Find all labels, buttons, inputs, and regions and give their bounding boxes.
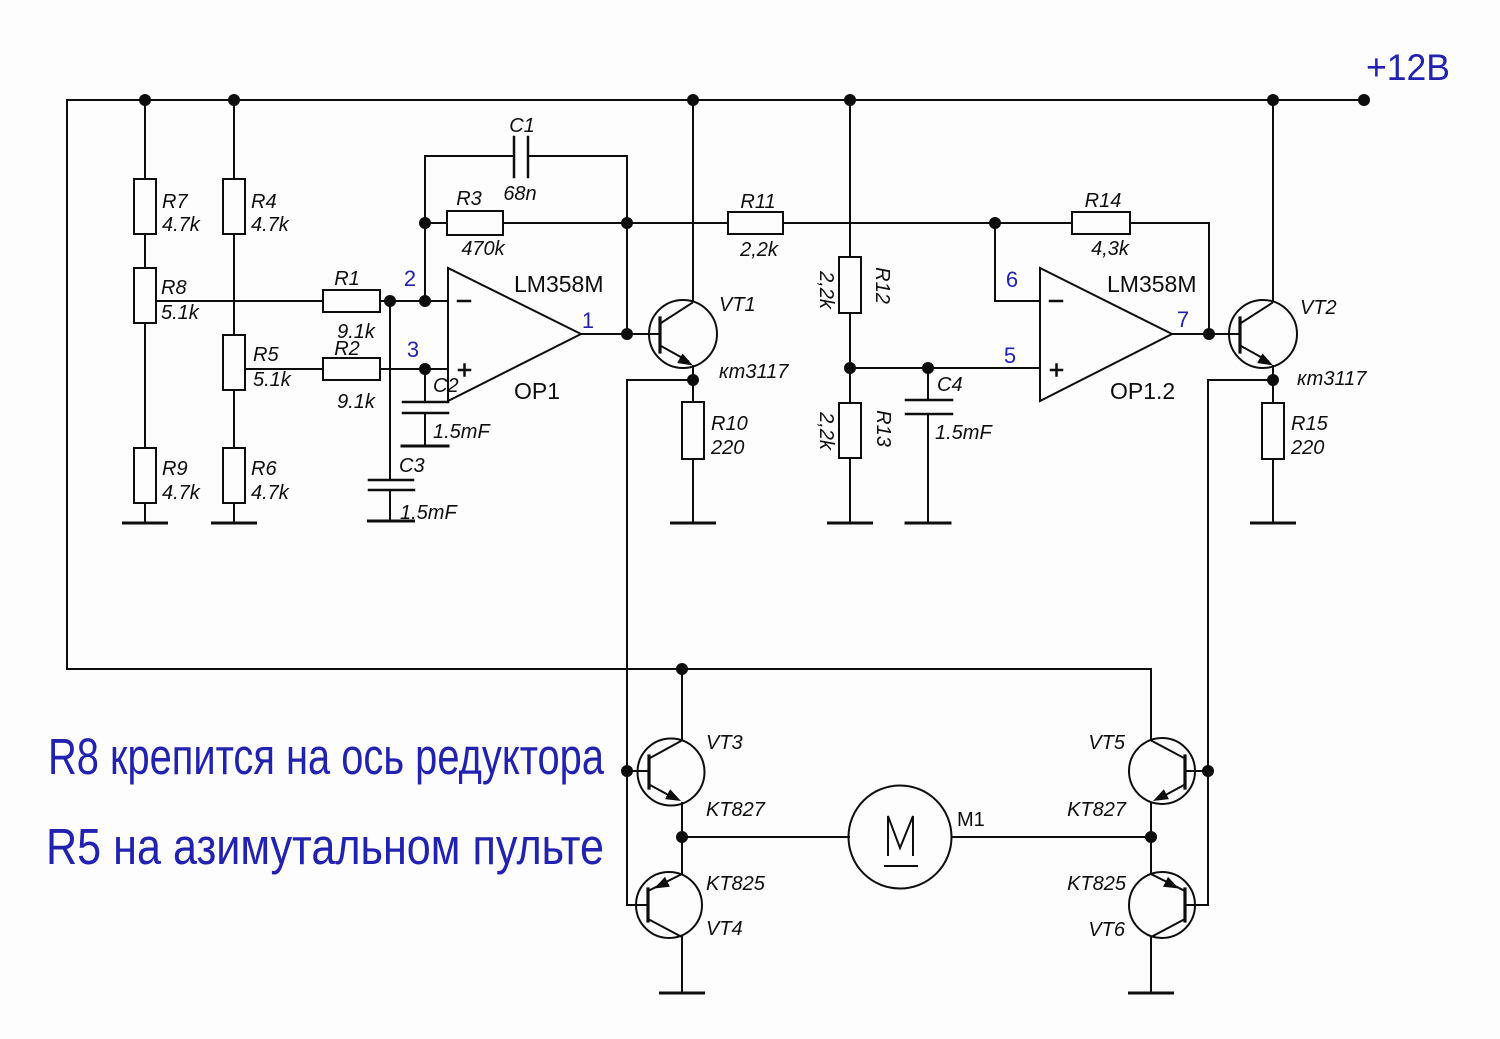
svg-text:R5: R5 xyxy=(253,344,279,366)
svg-text:R6: R6 xyxy=(251,458,277,480)
svg-text:R8 крепится на ось редуктора: R8 крепится на ось редуктора xyxy=(48,728,604,785)
svg-text:4.7k: 4.7k xyxy=(251,214,290,236)
svg-text:2,2k: 2,2k xyxy=(739,239,779,261)
svg-text:4,3k: 4,3k xyxy=(1091,238,1130,260)
svg-text:470k: 470k xyxy=(461,238,505,260)
svg-text:R8: R8 xyxy=(161,277,187,299)
svg-text:OP1: OP1 xyxy=(514,378,560,404)
svg-text:4.7k: 4.7k xyxy=(251,482,290,504)
svg-text:LM358M: LM358M xyxy=(1107,271,1196,297)
svg-text:9.1k: 9.1k xyxy=(337,391,376,413)
svg-text:KT827: KT827 xyxy=(706,799,766,821)
svg-text:C4: C4 xyxy=(937,374,963,396)
svg-text:1: 1 xyxy=(582,308,594,333)
svg-text:R12: R12 xyxy=(871,267,893,304)
svg-text:VT4: VT4 xyxy=(706,918,743,940)
svg-text:68n: 68n xyxy=(503,183,536,205)
svg-text:+12В: +12В xyxy=(1366,47,1450,88)
svg-text:1.5mF: 1.5mF xyxy=(400,502,458,524)
svg-text:VT1: VT1 xyxy=(719,294,756,316)
svg-text:OP1.2: OP1.2 xyxy=(1110,378,1175,404)
svg-text:C3: C3 xyxy=(399,455,425,477)
svg-text:KT825: KT825 xyxy=(706,873,766,895)
svg-text:R14: R14 xyxy=(1085,190,1122,212)
svg-text:C2: C2 xyxy=(433,375,459,397)
svg-text:5.1k: 5.1k xyxy=(161,302,200,324)
svg-text:220: 220 xyxy=(1290,437,1324,459)
svg-text:R13: R13 xyxy=(872,410,894,447)
svg-text:1.5mF: 1.5mF xyxy=(935,422,993,444)
svg-text:R9: R9 xyxy=(162,458,188,480)
svg-text:R7: R7 xyxy=(162,191,188,213)
svg-text:1.5mF: 1.5mF xyxy=(433,421,491,443)
svg-text:VT3: VT3 xyxy=(706,732,743,754)
svg-text:R2: R2 xyxy=(334,338,360,360)
svg-text:4.7k: 4.7k xyxy=(162,482,201,504)
svg-text:R10: R10 xyxy=(711,413,748,435)
svg-text:KT827: KT827 xyxy=(1067,799,1127,821)
svg-text:2,2k: 2,2k xyxy=(815,270,837,310)
svg-text:R3: R3 xyxy=(456,188,482,210)
svg-text:R1: R1 xyxy=(334,268,360,290)
svg-text:VT6: VT6 xyxy=(1088,919,1126,941)
svg-text:кт3117: кт3117 xyxy=(1297,368,1367,390)
svg-text:5: 5 xyxy=(1004,343,1016,368)
svg-text:5.1k: 5.1k xyxy=(253,369,292,391)
svg-text:кт3117: кт3117 xyxy=(719,361,789,383)
svg-text:R5 на азимутальном пульте: R5 на азимутальном пульте xyxy=(46,818,604,875)
svg-text:LM358M: LM358M xyxy=(514,271,603,297)
svg-text:R11: R11 xyxy=(740,191,775,213)
svg-text:R4: R4 xyxy=(251,191,277,213)
svg-text:M1: M1 xyxy=(957,809,985,831)
svg-text:3: 3 xyxy=(407,337,419,362)
svg-text:7: 7 xyxy=(1177,307,1189,332)
svg-text:KT825: KT825 xyxy=(1067,873,1127,895)
svg-text:4.7k: 4.7k xyxy=(162,214,201,236)
svg-text:2: 2 xyxy=(404,266,416,291)
svg-text:VT5: VT5 xyxy=(1088,732,1126,754)
svg-text:6: 6 xyxy=(1006,267,1018,292)
svg-text:R15: R15 xyxy=(1291,413,1329,435)
svg-text:2,2k: 2,2k xyxy=(815,411,837,451)
svg-text:C1: C1 xyxy=(509,115,535,137)
svg-text:220: 220 xyxy=(710,437,744,459)
svg-text:VT2: VT2 xyxy=(1300,297,1337,319)
